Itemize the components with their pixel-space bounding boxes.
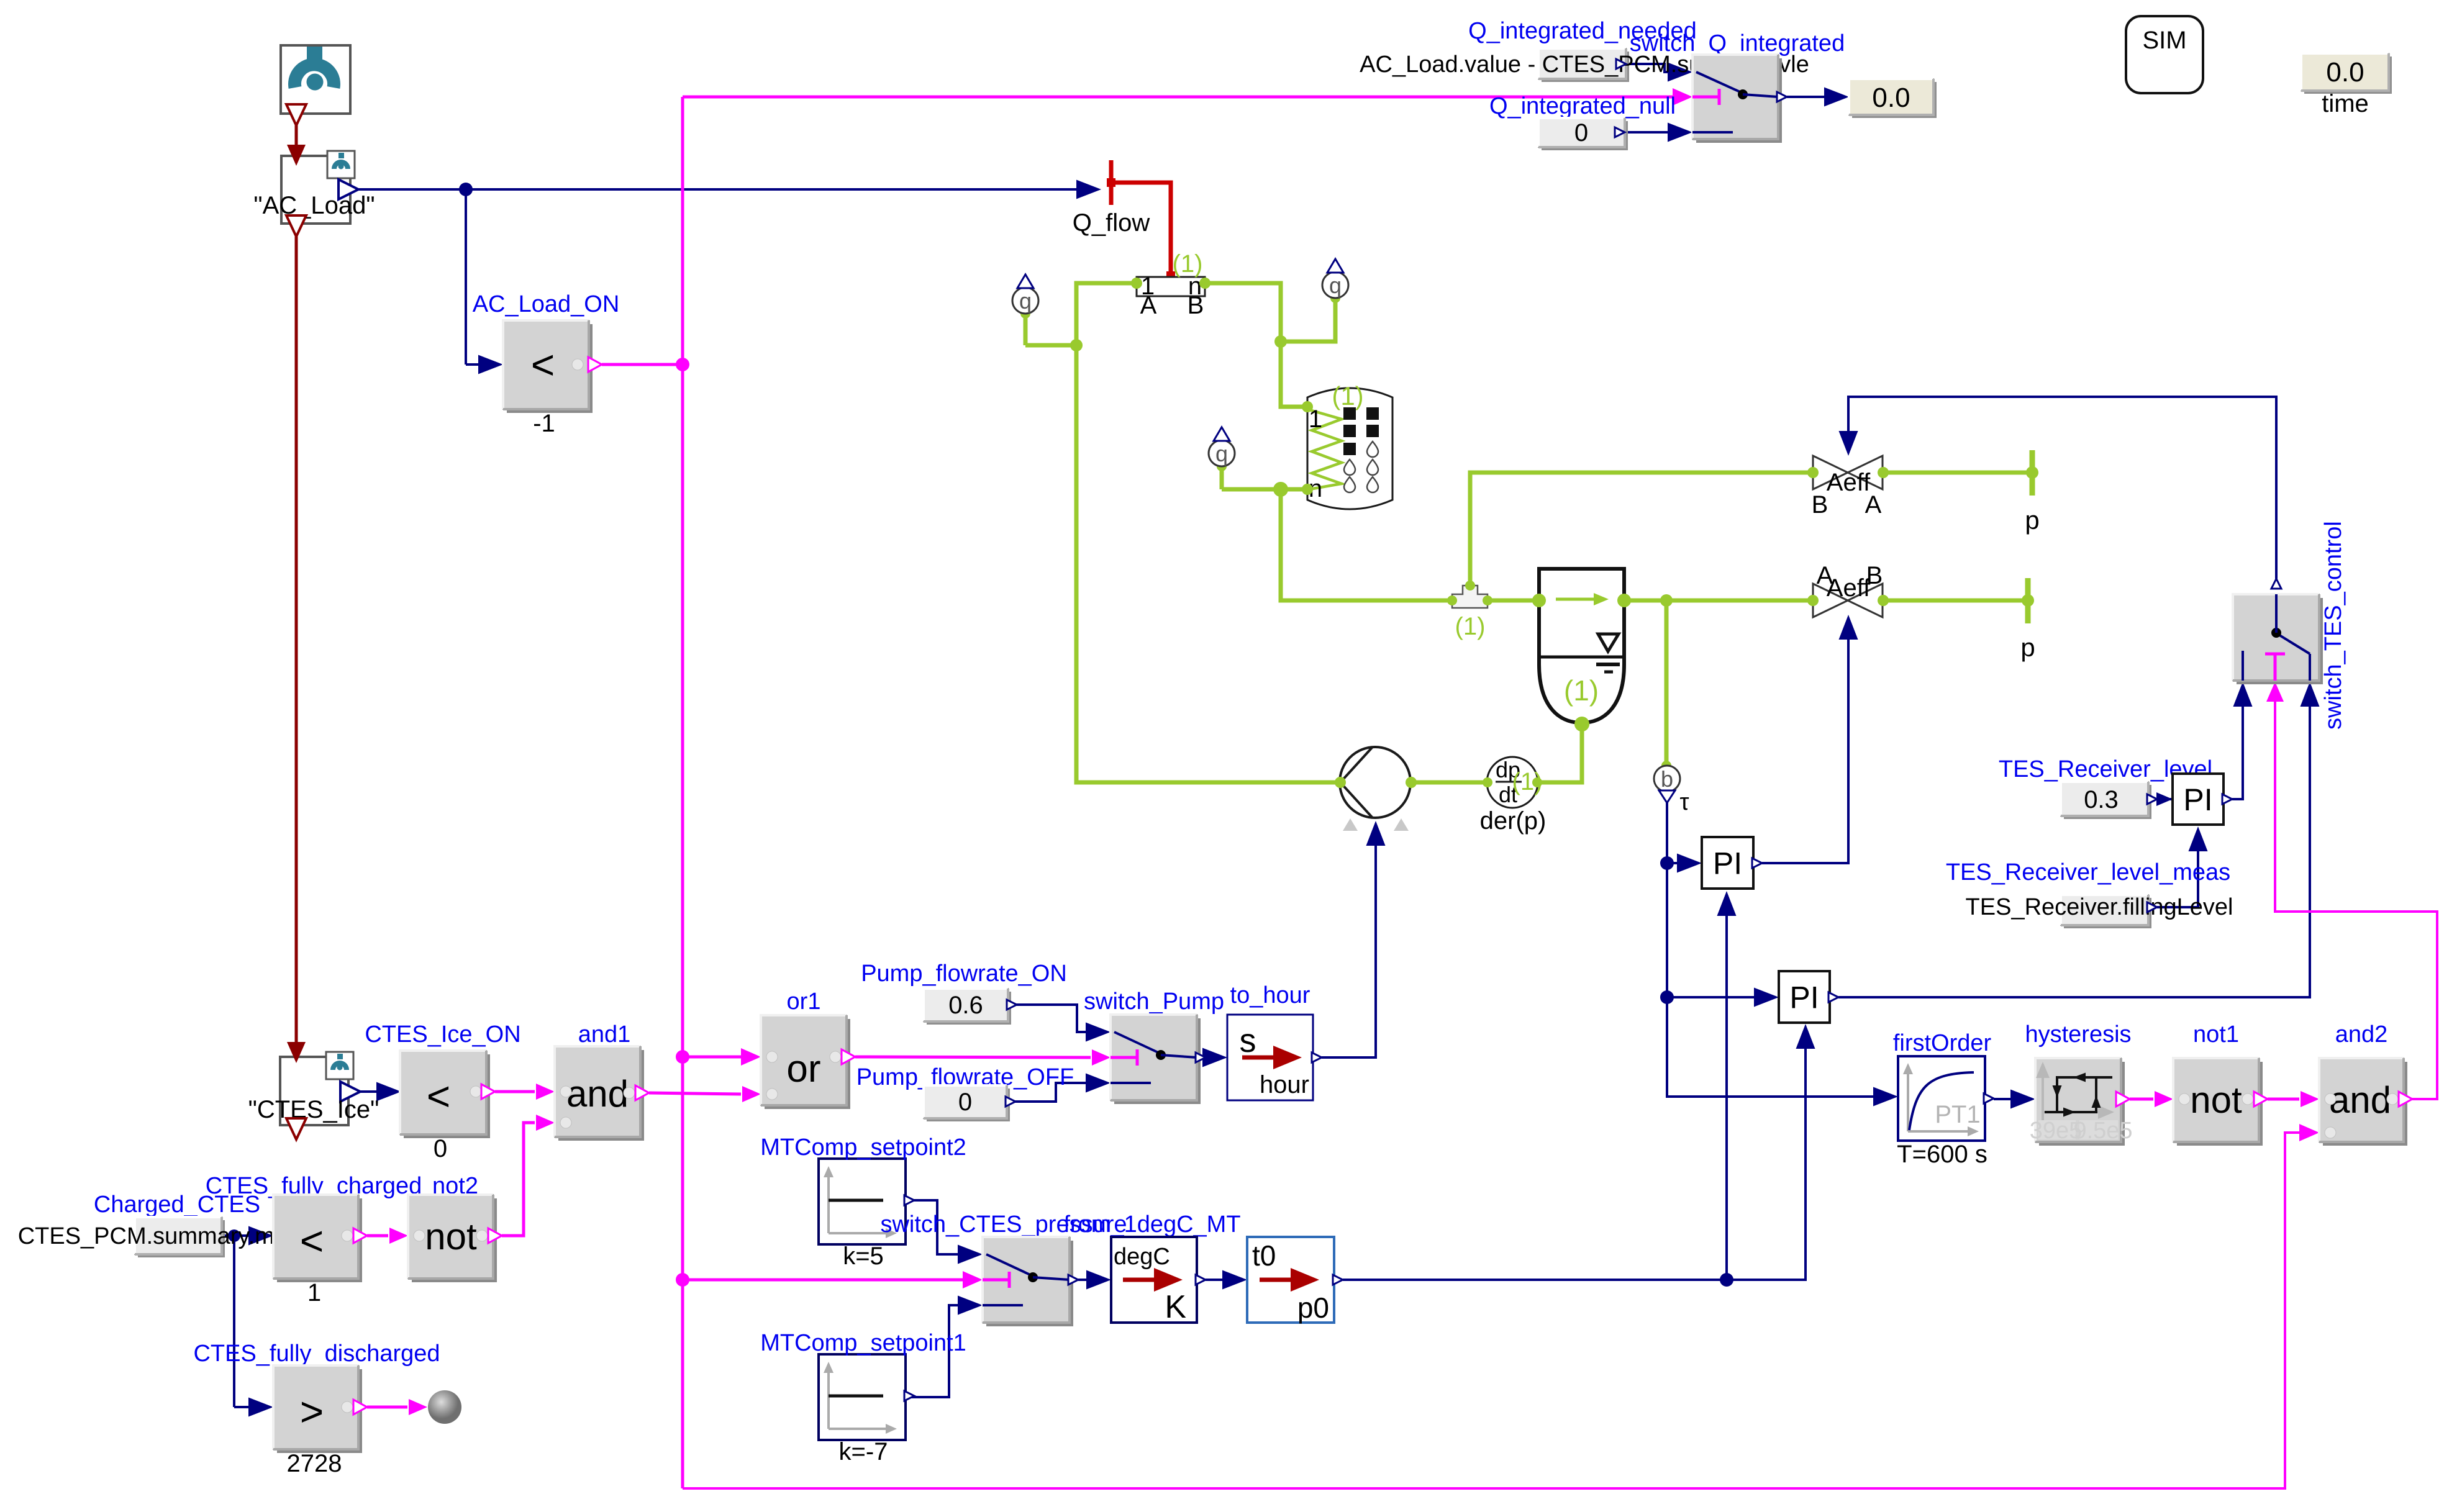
svg-text:"CTES_Ice": "CTES_Ice" [248, 1096, 379, 1123]
svg-text:PT1: PT1 [1935, 1101, 1980, 1128]
svg-text:hour: hour [1260, 1071, 1309, 1098]
svg-text:0.3: 0.3 [2084, 786, 2119, 813]
svg-text:b: b [1661, 766, 1673, 792]
svg-text:T=600 s: T=600 s [1897, 1141, 1987, 1168]
svg-text:SIM: SIM [2142, 27, 2186, 54]
svg-text:switch_TES_control: switch_TES_control [2320, 521, 2346, 730]
svg-text:k=5: k=5 [843, 1243, 884, 1270]
svg-text:0: 0 [1574, 119, 1588, 147]
svg-text:from_1degC_MT: from_1degC_MT [1063, 1211, 1240, 1238]
svg-text:<: < [427, 1073, 451, 1119]
svg-text:and1: and1 [578, 1021, 631, 1048]
svg-text:(1): (1) [1455, 613, 1486, 640]
svg-text:<: < [531, 342, 555, 387]
svg-text:and: and [2329, 1079, 2391, 1121]
svg-text:0.6: 0.6 [948, 992, 983, 1019]
svg-text:Q_flow: Q_flow [1073, 209, 1150, 237]
svg-text:not: not [425, 1216, 477, 1257]
svg-text:and: and [566, 1073, 629, 1115]
svg-text:Aeff: Aeff [1827, 469, 1871, 496]
svg-text:der(p): der(p) [1480, 807, 1547, 835]
svg-text:(1): (1) [1173, 250, 1203, 278]
svg-text:q: q [1019, 288, 1032, 314]
svg-text:and2: and2 [2335, 1021, 2388, 1048]
svg-text:switch_Pump: switch_Pump [1084, 989, 1224, 1015]
svg-text:to_hour: to_hour [1230, 982, 1310, 1008]
svg-text:Pump_flowrate_ON: Pump_flowrate_ON [861, 961, 1067, 987]
svg-text:t0: t0 [1252, 1239, 1276, 1272]
svg-text:time: time [2322, 90, 2369, 117]
svg-text:CTES_Ice_ON: CTES_Ice_ON [365, 1021, 520, 1048]
svg-text:PI: PI [1789, 980, 1819, 1015]
svg-text:B: B [1866, 562, 1883, 589]
svg-text:q: q [1329, 273, 1342, 298]
svg-text:A: A [1140, 292, 1157, 319]
svg-text:p0: p0 [1297, 1292, 1329, 1324]
svg-text:PI: PI [1713, 846, 1742, 881]
svg-text:TES_Receiver_level_meas: TES_Receiver_level_meas [1946, 859, 2230, 885]
svg-text:AC_Load_ON: AC_Load_ON [473, 291, 620, 317]
svg-text:hysteresis: hysteresis [2025, 1021, 2131, 1048]
svg-text:s: s [1240, 1022, 1256, 1059]
svg-text:0: 0 [958, 1089, 972, 1116]
svg-text:1: 1 [307, 1279, 321, 1306]
svg-text:-1: -1 [533, 410, 555, 437]
svg-text:<: < [300, 1218, 324, 1264]
svg-text:(1): (1) [1332, 381, 1363, 410]
svg-text:Q_integrated_null: Q_integrated_null [1489, 93, 1676, 119]
svg-text:Aeff: Aeff [1827, 574, 1871, 602]
svg-text:A: A [1817, 562, 1833, 589]
svg-text:CTES_fully_discharged: CTES_fully_discharged [193, 1341, 440, 1367]
svg-text:not1: not1 [2193, 1021, 2239, 1048]
svg-text:q: q [1215, 441, 1228, 466]
svg-text:K: K [1165, 1289, 1186, 1325]
svg-text:MTComp_setpoint1: MTComp_setpoint1 [760, 1330, 966, 1356]
svg-text:0.0: 0.0 [1872, 83, 1910, 113]
svg-text:>: > [300, 1388, 324, 1434]
svg-text:or1: or1 [787, 989, 821, 1015]
svg-text:2728: 2728 [287, 1450, 342, 1477]
svg-text:not: not [2190, 1079, 2242, 1121]
svg-text:B: B [1188, 292, 1204, 319]
svg-text:9.5e5: 9.5e5 [2073, 1118, 2132, 1144]
svg-text:B: B [1812, 491, 1828, 518]
svg-text:0.0: 0.0 [2326, 57, 2364, 88]
svg-text:MTComp_setpoint2: MTComp_setpoint2 [760, 1134, 966, 1161]
svg-text:or: or [786, 1048, 820, 1090]
svg-text:(1): (1) [1564, 674, 1599, 707]
svg-text:p: p [2020, 633, 2035, 662]
svg-text:firstOrder: firstOrder [1893, 1030, 1992, 1056]
svg-text:p: p [2025, 505, 2039, 535]
svg-text:degC: degC [1114, 1244, 1170, 1270]
svg-text:TES_Receiver.fillingLevel: TES_Receiver.fillingLevel [1966, 894, 2233, 920]
svg-text:τ: τ [1679, 789, 1689, 815]
svg-text:k=-7: k=-7 [839, 1438, 888, 1465]
svg-text:PI: PI [2183, 782, 2212, 817]
svg-text:A: A [1865, 491, 1882, 518]
svg-text:0: 0 [434, 1135, 447, 1162]
svg-text:"AC_Load": "AC_Load" [253, 192, 375, 219]
